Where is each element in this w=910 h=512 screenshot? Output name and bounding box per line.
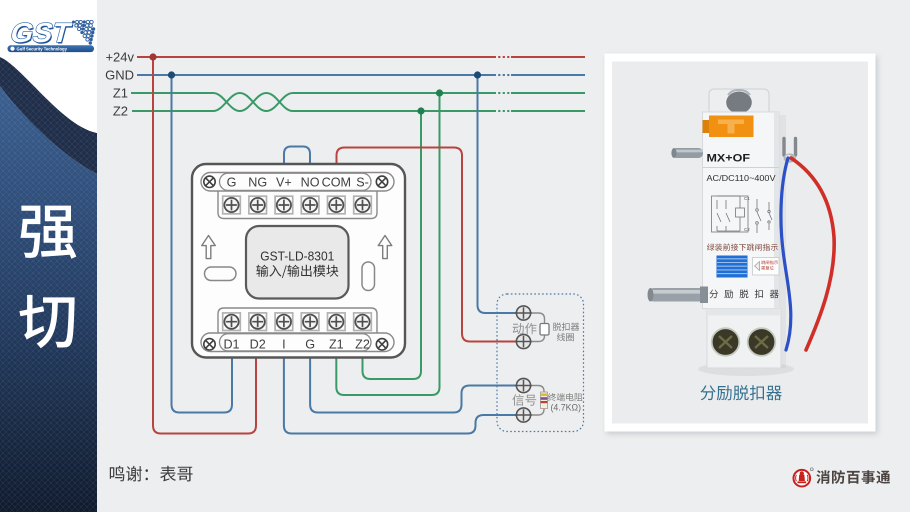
svg-text:Z2: Z2: [355, 337, 370, 351]
svg-text:NG: NG: [248, 175, 267, 189]
svg-text:S-: S-: [356, 175, 369, 189]
svg-text:V+: V+: [276, 175, 292, 189]
svg-text:G: G: [227, 175, 237, 189]
svg-text:I: I: [282, 337, 286, 351]
svg-text:Z2: Z2: [113, 104, 128, 119]
svg-text:D1: D1: [223, 337, 239, 351]
svg-text:MX+OF: MX+OF: [707, 153, 751, 165]
svg-text:+24v: +24v: [105, 50, 134, 65]
svg-text:Z1: Z1: [113, 86, 128, 101]
svg-text:GND: GND: [105, 68, 134, 83]
svg-text:GST: GST: [7, 17, 74, 47]
svg-text:Z1: Z1: [329, 337, 344, 351]
svg-text:C1: C1: [744, 196, 750, 201]
svg-text:NO: NO: [301, 175, 320, 189]
svg-text:C2: C2: [744, 227, 750, 232]
svg-text:COM: COM: [322, 175, 351, 189]
svg-text:G: G: [305, 337, 315, 351]
svg-text:AC/DC110~400V: AC/DC110~400V: [707, 174, 777, 183]
svg-text:GST-LD-8301: GST-LD-8301: [260, 249, 334, 264]
svg-text:D2: D2: [250, 337, 266, 351]
svg-text:(4.7KΩ): (4.7KΩ): [551, 403, 582, 413]
svg-text:Gulf Security Technology: Gulf Security Technology: [17, 46, 68, 51]
